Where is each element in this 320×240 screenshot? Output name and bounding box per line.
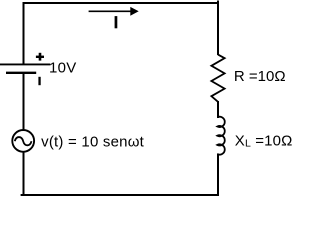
wire left upper xyxy=(23,2,25,64)
wire left lower xyxy=(23,152,25,196)
battery B1 plate negative xyxy=(6,72,36,74)
ac source V1 sine wave xyxy=(15,137,32,145)
wire right upper xyxy=(217,1,219,56)
wire left middle xyxy=(23,73,25,130)
wire right lower xyxy=(217,154,219,197)
resistor R xyxy=(211,55,224,102)
svg-text:XL =10Ω: XL =10Ω xyxy=(235,133,293,150)
wire top side xyxy=(23,2,220,4)
current arrow xyxy=(89,7,139,16)
label I xyxy=(115,16,118,28)
battery polarity plus xyxy=(36,53,44,61)
battery polarity minus tick xyxy=(38,77,40,85)
wire right middle xyxy=(217,101,219,118)
wire bottom side xyxy=(21,194,219,196)
svg-text:10V: 10V xyxy=(49,60,77,77)
inductor XL coil xyxy=(217,117,224,155)
ac source V1 circle xyxy=(12,130,34,152)
battery B1 plate positive xyxy=(0,63,50,65)
svg-text:R =10Ω: R =10Ω xyxy=(234,68,286,85)
svg-text:v(t) = 10 senωt: v(t) = 10 senωt xyxy=(41,133,145,150)
